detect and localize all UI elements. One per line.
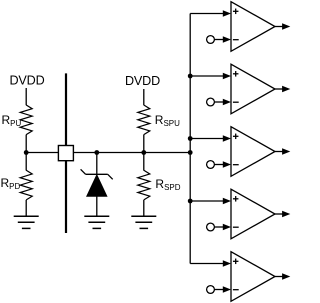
svg-text:DVDD: DVDD bbox=[9, 74, 44, 88]
wire: R_PU to node bbox=[25, 135, 27, 153]
wire: DVDD to R_PU bbox=[25, 88, 27, 105]
resistor R_SPD bbox=[138, 170, 150, 200]
node: junction at ESD diode bbox=[94, 150, 99, 155]
comparator U1 bbox=[231, 2, 275, 52]
svg-text:DVDD: DVDD bbox=[125, 74, 160, 88]
wire: comparator input bus bbox=[189, 14, 191, 264]
wire: R_PD to ground bbox=[25, 200, 27, 216]
node: bus junction to U2 bbox=[188, 74, 193, 79]
ground (center) bbox=[84, 216, 109, 228]
wire: R_SPD to ground bbox=[143, 200, 145, 216]
input terminal circle U2 inverting input bbox=[207, 98, 215, 106]
wire: R_SPU to node bbox=[143, 135, 145, 153]
wire: bus to U5 noninverting input bbox=[190, 260, 231, 266]
comparator U2 bbox=[231, 64, 275, 114]
input terminal circle U1 inverting input bbox=[207, 36, 215, 44]
node: bus junction to U4 bbox=[188, 199, 193, 204]
wire: node to D1 cathode bbox=[96, 153, 98, 175]
wire: bus to U2 noninverting input bbox=[190, 73, 231, 79]
wire: bus to U4 noninverting input bbox=[190, 198, 231, 204]
wire: DVDD to R_SPU bbox=[143, 89, 145, 105]
wire: U5 output bbox=[275, 273, 290, 279]
wire: main horizontal net from RPU/RPD node to comparator bus bbox=[26, 152, 190, 154]
node: right junction bbox=[141, 150, 146, 155]
wire: D1 anode to ground bbox=[96, 196, 98, 216]
comparator U3 bbox=[231, 127, 275, 177]
wire: terminal to U5 inverting input bbox=[214, 286, 231, 292]
node: left junction bbox=[24, 150, 29, 155]
wire: device boundary line bbox=[65, 73, 67, 233]
pin box (device terminal) bbox=[58, 146, 73, 161]
wire: terminal to U3 inverting input bbox=[214, 161, 231, 167]
wire: terminal to U1 inverting input bbox=[214, 36, 231, 42]
ground (left) bbox=[14, 216, 39, 228]
comparator U4 bbox=[231, 189, 275, 239]
resistor R_SPU bbox=[138, 105, 150, 135]
wire: U3 output bbox=[275, 148, 290, 154]
ground (right) bbox=[131, 216, 156, 228]
input terminal circle U3 inverting input bbox=[207, 161, 215, 169]
resistor R_PD bbox=[20, 170, 32, 200]
wire: U2 output bbox=[275, 86, 290, 92]
node: bus junction to U3 bbox=[188, 136, 193, 141]
zener diode D1 (ESD clamp) bbox=[81, 169, 113, 196]
wire: U4 output bbox=[275, 211, 290, 217]
wire: node to R_PD bbox=[25, 153, 27, 171]
wire: terminal to U4 inverting input bbox=[214, 224, 231, 230]
input terminal circle U4 inverting input bbox=[207, 223, 215, 231]
wire: bus to U3 noninverting input bbox=[190, 135, 231, 141]
wire: node to R_SPD bbox=[143, 153, 145, 171]
comparator U5 bbox=[231, 252, 275, 302]
resistor R_PU bbox=[20, 105, 32, 135]
wire: terminal to U2 inverting input bbox=[214, 99, 231, 105]
wire: U1 output bbox=[275, 23, 290, 29]
node: bus junction main net bbox=[188, 150, 193, 155]
input terminal circle U5 inverting input bbox=[207, 286, 215, 294]
wire: bus to U1 noninverting input bbox=[190, 10, 231, 16]
